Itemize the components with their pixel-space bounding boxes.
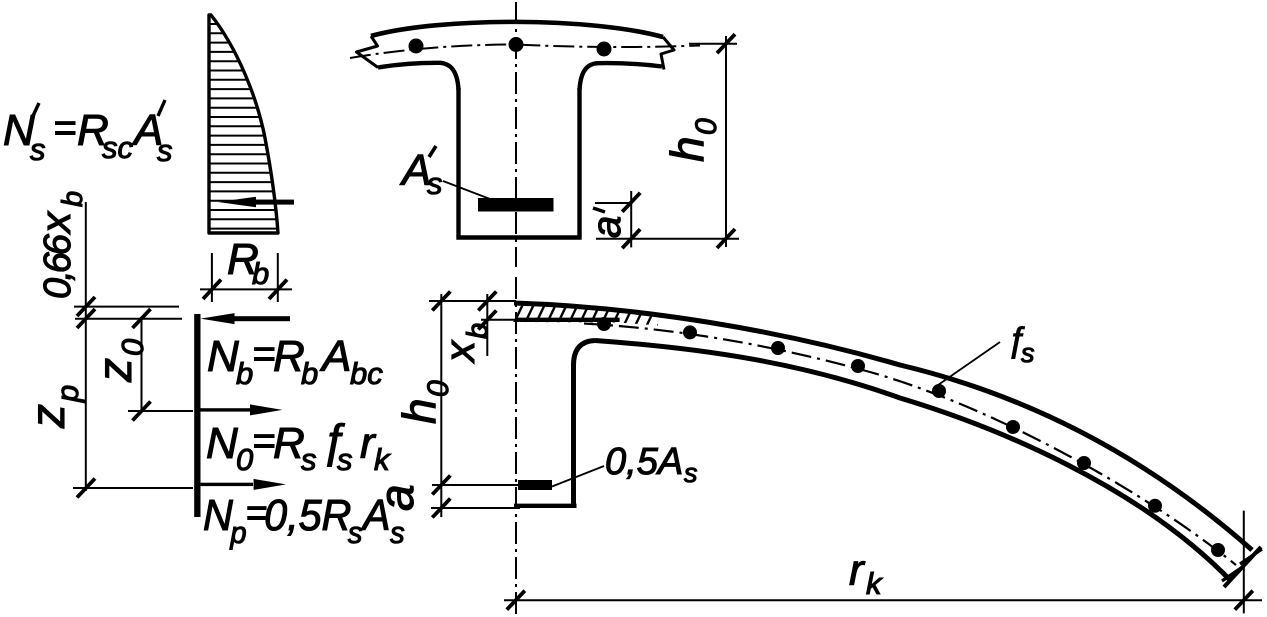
svg-text:=: = <box>53 106 76 150</box>
arch rebar dots <box>597 317 1225 557</box>
svg-text:s: s <box>301 442 317 477</box>
svg-text:N: N <box>207 332 239 381</box>
svg-text:0,5: 0,5 <box>264 491 322 540</box>
flange bottom arc left <box>378 63 459 90</box>
right break <box>661 37 674 70</box>
label Rb <box>227 235 269 291</box>
compression zone bottom line <box>515 318 620 322</box>
left dimension lines <box>73 202 193 491</box>
svg-text:0: 0 <box>422 380 455 397</box>
svg-text:b: b <box>252 256 269 291</box>
left break <box>357 36 379 68</box>
label N0=Rsfsrk <box>206 414 391 477</box>
arrow Nb (left) <box>201 313 291 324</box>
ticks <box>77 297 151 498</box>
label 0,5As <box>605 441 698 488</box>
svg-text:b: b <box>236 356 253 391</box>
svg-text:r: r <box>849 546 866 595</box>
svg-text:p: p <box>50 385 85 403</box>
svg-text:h: h <box>661 136 713 162</box>
svg-text:z: z <box>22 404 75 429</box>
svg-text:N: N <box>203 491 233 540</box>
svg-text:s: s <box>30 132 46 167</box>
svg-text:R: R <box>273 332 305 381</box>
svg-text:=: = <box>252 419 275 463</box>
svg-text:0: 0 <box>236 442 253 477</box>
svg-text:0: 0 <box>690 118 723 135</box>
label A's <box>399 146 443 201</box>
rk dimension <box>504 511 1262 614</box>
arch bottom curve <box>595 341 1231 582</box>
svg-text:b: b <box>301 356 318 391</box>
svg-text:sc: sc <box>102 130 134 165</box>
svg-text:bc: bc <box>350 356 383 391</box>
Rb dimension <box>200 253 292 302</box>
arrow Np (right) <box>198 479 286 490</box>
stress diagram outline <box>209 15 278 233</box>
svg-text:s: s <box>390 516 405 550</box>
svg-text:=: = <box>252 332 275 376</box>
svg-text:N: N <box>206 419 238 468</box>
crown web bottom <box>514 504 577 508</box>
svg-text:k: k <box>374 442 391 477</box>
svg-text:s: s <box>427 166 443 201</box>
stress resultant arrow <box>218 197 294 207</box>
arch end cut <box>1224 547 1261 587</box>
svg-text:s: s <box>684 458 698 488</box>
svg-text:A: A <box>319 332 351 381</box>
compression hatch <box>514 300 668 328</box>
force bar <box>194 314 200 517</box>
svg-text:x: x <box>436 339 483 364</box>
arch axis dash-dot <box>584 324 1236 566</box>
label Nb=RbAbc <box>207 332 383 391</box>
crown dimensions left <box>429 294 520 517</box>
svg-text:s: s <box>348 516 363 550</box>
svg-text:h: h <box>393 398 445 424</box>
xb level extension <box>481 319 515 321</box>
label z0 (rotated) <box>89 339 150 383</box>
arrow N0 (right) <box>198 404 282 415</box>
T-beam centerline <box>515 2 517 267</box>
svg-text:R: R <box>273 419 305 468</box>
arch top curve <box>514 303 1252 550</box>
leader 0,5As <box>552 466 604 487</box>
a' dimension <box>595 191 739 247</box>
flange dash-dot axis <box>350 45 700 59</box>
crown centerline <box>515 277 517 616</box>
flange rebar dots <box>409 37 612 57</box>
label xb (rotated) <box>436 323 494 364</box>
label rk <box>849 546 883 601</box>
svg-text:b: b <box>462 323 494 339</box>
svg-text:x: x <box>32 210 79 235</box>
svg-text:0,5A: 0,5A <box>605 441 683 483</box>
flange bottom arc right <box>580 63 663 90</box>
svg-text:a: a <box>371 484 424 511</box>
svg-text:k: k <box>866 566 883 601</box>
svg-text:b: b <box>57 191 89 207</box>
stress diagram hatch <box>205 24 285 229</box>
label fs <box>1007 321 1035 368</box>
label Np=0,5RsAs <box>203 491 405 550</box>
leader fs <box>938 342 1000 385</box>
svg-text:s: s <box>337 442 353 477</box>
label 0,66xb (rotated) <box>32 191 89 299</box>
flange top arc <box>371 22 663 37</box>
crown rebar 0,5As <box>518 480 552 490</box>
web <box>456 88 581 238</box>
label a crown (rotated) <box>371 484 424 511</box>
svg-text:s: s <box>157 133 173 168</box>
label zp (rotated) <box>22 385 85 429</box>
svg-text:0,66: 0,66 <box>37 233 79 299</box>
svg-text:a: a <box>585 216 629 238</box>
label h0 crown (rotated) <box>393 380 455 424</box>
svg-text:z: z <box>89 358 142 383</box>
h0 dimension (top) <box>689 36 737 247</box>
arch end ticks <box>1222 549 1262 581</box>
label h0 top (rotated) <box>661 118 723 162</box>
label a' (rotated) <box>585 208 629 238</box>
svg-text:p: p <box>229 516 246 550</box>
leader A's <box>443 181 490 199</box>
svg-text:s: s <box>1021 338 1035 368</box>
web of crown section <box>574 341 596 507</box>
label N's=RscA's <box>3 100 173 168</box>
svg-text:0: 0 <box>115 339 150 356</box>
rebar A's <box>478 198 554 212</box>
